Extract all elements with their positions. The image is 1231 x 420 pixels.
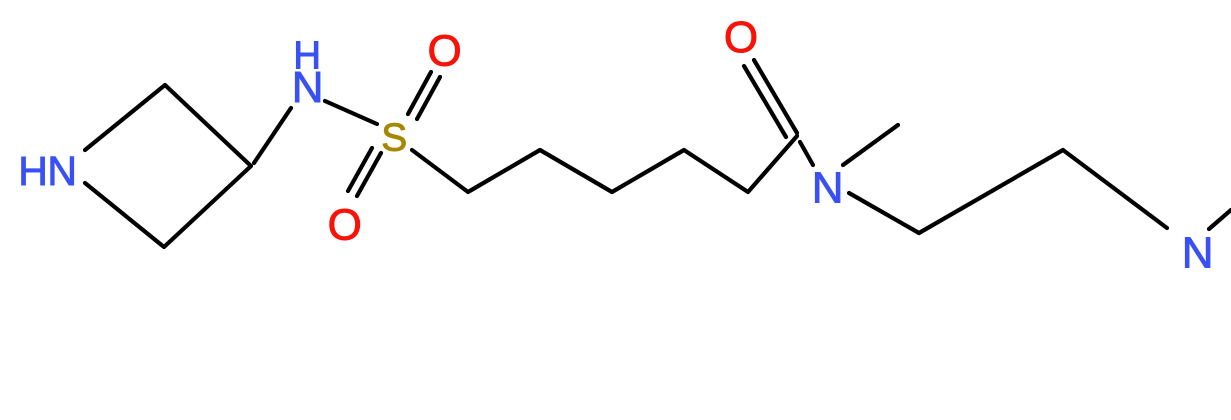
svg-text:O: O — [724, 13, 758, 62]
wire S=O upper double bond — [408, 72, 431, 114]
svg-text:S: S — [381, 117, 407, 160]
wire apex A down to pyridine-type N — [1063, 150, 1167, 228]
svg-text:O: O — [328, 200, 362, 249]
wire C=O double bond — [754, 60, 797, 133]
ring azetidine (HN diamond) — [85, 85, 251, 247]
wire N NE stub — [1209, 210, 1231, 229]
svg-text:HN: HN — [18, 148, 76, 194]
svg-text:N: N — [1182, 229, 1214, 278]
wire amide N methyl stub — [843, 125, 898, 165]
wire S to chain C1..C5 — [412, 136, 797, 192]
wire V1 up to apex A — [919, 150, 1063, 233]
svg-text:O: O — [427, 27, 461, 76]
wire amide N to V1 — [849, 193, 919, 233]
wire N to S — [325, 101, 377, 124]
wire carbonyl C to amide N — [800, 142, 813, 165]
svg-text:N: N — [812, 164, 844, 213]
wire C3 to sulfonamide N — [254, 108, 291, 163]
svg-text:N: N — [292, 63, 324, 112]
wire S=O lower double bond — [357, 153, 381, 196]
